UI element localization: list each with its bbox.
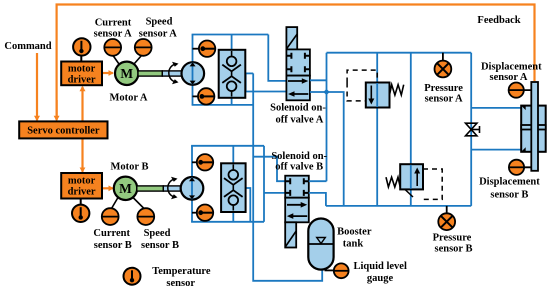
wire valve A port1 right xyxy=(310,79,327,81)
current sensor A xyxy=(104,39,121,56)
legend temperature sensor xyxy=(124,268,141,285)
pump B P2 xyxy=(181,177,204,200)
svg-text:Pressure: Pressure xyxy=(424,83,463,94)
speed sensor A xyxy=(135,39,152,56)
svg-text:sensor A: sensor A xyxy=(94,29,132,40)
svg-text:Liquid level: Liquid level xyxy=(354,261,407,272)
svg-text:Feedback: Feedback xyxy=(477,15,520,26)
svg-text:motor: motor xyxy=(68,176,96,187)
svg-text:Motor B: Motor B xyxy=(110,162,148,173)
wire branch to valve A port2 xyxy=(246,73,287,91)
test point sensor A bottom xyxy=(193,88,215,104)
wire check block A output xyxy=(245,72,253,74)
motor A M1 xyxy=(115,62,138,85)
svg-text:sensor B: sensor B xyxy=(94,240,132,251)
wire cylinder port 1 xyxy=(471,107,521,109)
wire branch to valve B port2 xyxy=(264,192,286,194)
pressure sensor A xyxy=(435,53,452,78)
wire command arrow into servo controller xyxy=(36,53,38,120)
pump A P1 xyxy=(182,62,205,85)
wire circuit B bottom edge xyxy=(191,221,264,223)
svg-text:Command: Command xyxy=(4,41,51,52)
relief valve B xyxy=(386,164,442,199)
svg-text:Solenoid on-: Solenoid on- xyxy=(271,151,327,162)
svg-text:off valve A: off valve A xyxy=(275,115,323,126)
wire cylinder port 2 xyxy=(471,149,521,151)
svg-text:Motor A: Motor A xyxy=(109,93,147,104)
svg-text:sensor: sensor xyxy=(166,278,195,289)
motor driver B xyxy=(61,173,102,199)
wire motor driver A to motor A (arrow right) xyxy=(103,72,113,74)
svg-text:driver: driver xyxy=(68,74,96,85)
svg-text:Displacement: Displacement xyxy=(479,177,540,188)
wire top bus xyxy=(327,52,472,54)
wire valve B port2 right to bus xyxy=(309,193,326,206)
wire feedback arrow into servo controller xyxy=(55,100,57,120)
rotation arrow A xyxy=(169,64,177,82)
rotation arrow B xyxy=(168,179,176,197)
wire circuit B right vertical xyxy=(263,146,265,222)
svg-text:Temperature: Temperature xyxy=(152,266,211,277)
wire motor driver B to motor B (arrow right) xyxy=(103,187,113,189)
svg-text:Pressure: Pressure xyxy=(433,233,472,244)
svg-text:Speed: Speed xyxy=(144,228,171,239)
cylinder body xyxy=(521,106,546,152)
test point sensor B top xyxy=(192,154,213,170)
wire servo to motor driver A (arrow up) xyxy=(81,87,83,121)
current sensor B xyxy=(102,208,119,225)
svg-text:sensor A: sensor A xyxy=(139,29,177,40)
servo controller U1 xyxy=(19,121,107,138)
speed sensor B connector xyxy=(133,198,144,209)
wire main vertical valve A to valve B xyxy=(326,53,328,182)
svg-text:off valve B: off valve B xyxy=(275,162,323,173)
current sensor A connector xyxy=(113,56,119,65)
solenoid on-off valve B xyxy=(285,176,309,248)
svg-text:motor: motor xyxy=(68,64,96,75)
liquid level gauge xyxy=(325,263,349,278)
wire circuit A bottom edge xyxy=(192,104,254,106)
wire servo to motor driver B (arrow down) xyxy=(81,139,83,172)
relief valve A xyxy=(347,70,404,107)
svg-text:sensor B: sensor B xyxy=(434,244,472,255)
junction node xyxy=(323,89,329,95)
temperature sensor A xyxy=(73,38,90,61)
motor driver A xyxy=(61,62,102,86)
svg-text:sensor B: sensor B xyxy=(141,240,179,251)
wire lower bus xyxy=(326,205,471,207)
shaft A xyxy=(138,71,182,76)
speed sensor B xyxy=(137,208,154,225)
displacement sensor A xyxy=(509,83,532,98)
wire branch to valve B port1 left xyxy=(253,157,286,182)
svg-text:sensor A: sensor A xyxy=(489,72,527,83)
pressure sensor B xyxy=(438,206,455,230)
svg-text:Servo controller: Servo controller xyxy=(27,126,100,137)
svg-text:gauge: gauge xyxy=(367,273,394,284)
check valve block B xyxy=(221,146,246,222)
svg-text:sensor A: sensor A xyxy=(425,94,463,105)
test point sensor B bottom xyxy=(192,205,213,221)
svg-text:Booster: Booster xyxy=(337,227,372,238)
wire long vertical to bottom bus xyxy=(253,73,322,280)
wire right vertical to cylinder xyxy=(470,53,472,206)
svg-text:M: M xyxy=(119,181,132,196)
wire valve B port1 right xyxy=(309,180,327,182)
wire circuit A right to valve A port1 xyxy=(268,35,287,81)
wire relief A vertical xyxy=(376,53,378,206)
svg-text:Current: Current xyxy=(95,18,132,29)
wire circuit B top edge xyxy=(191,145,264,147)
test point sensor A top xyxy=(193,41,216,57)
svg-text:driver: driver xyxy=(68,187,96,198)
wire circuit A top edge xyxy=(192,34,269,36)
current sensor B connector xyxy=(112,198,119,209)
displacement sensor B xyxy=(509,160,531,175)
svg-text:Displacement: Displacement xyxy=(481,62,542,73)
wire relief B vertical xyxy=(410,53,412,206)
motor B M2 xyxy=(114,177,137,200)
svg-text:Current: Current xyxy=(93,228,130,239)
piston rod xyxy=(531,82,538,171)
svg-text:tank: tank xyxy=(343,239,364,250)
shaft B xyxy=(137,186,181,191)
shutoff valve (bowtie) xyxy=(466,123,480,136)
svg-text:sensor B: sensor B xyxy=(490,190,528,201)
solenoid on-off valve A xyxy=(286,27,310,100)
wire check block B output xyxy=(246,188,251,222)
svg-text:Speed: Speed xyxy=(146,17,173,28)
svg-text:M: M xyxy=(120,66,133,81)
wire feedback loop (orange) xyxy=(57,5,535,119)
check valve block A xyxy=(219,35,246,105)
temperature sensor B xyxy=(72,199,89,223)
svg-text:Solenoid on-: Solenoid on- xyxy=(270,103,326,114)
speed sensor A connector xyxy=(134,56,142,65)
wire circuit A left vertical through pump A xyxy=(192,35,194,105)
wire valve A port2 right to down xyxy=(310,92,344,206)
wire circuit B left vertical through pump B xyxy=(191,146,193,222)
